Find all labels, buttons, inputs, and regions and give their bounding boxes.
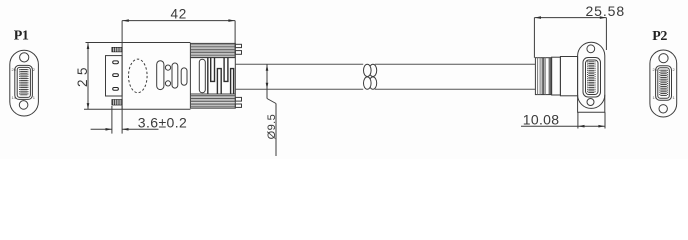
svg-text:42: 42 <box>171 6 188 21</box>
body slot A <box>157 61 164 90</box>
svg-text:14: 14 <box>653 95 658 100</box>
right flange bottom arc <box>578 95 605 109</box>
left boot comb ribs <box>208 58 234 94</box>
body left edge / 42-dim left ext <box>121 21 123 110</box>
cable break symbol <box>364 64 377 89</box>
P2 top screw hole <box>659 54 668 63</box>
svg-text:3.6±0.2: 3.6±0.2 <box>138 114 187 130</box>
left 25-dim line <box>87 43 90 110</box>
left boot top band boundary <box>190 57 235 59</box>
svg-text:25.58: 25.58 <box>586 3 626 19</box>
shell front rect <box>106 56 123 96</box>
tiny pin numbers P1 <box>12 67 36 100</box>
svg-text:P2: P2 <box>652 29 667 44</box>
3.6 dim ext lines <box>111 106 113 134</box>
P2 connector inner frame <box>658 68 670 98</box>
cable lower line <box>235 88 363 90</box>
right flange outline <box>578 42 605 112</box>
P1 pin ladder <box>20 69 28 95</box>
shell slot 2 <box>113 74 119 77</box>
3.6 dim arrows and tails <box>91 128 159 131</box>
tiny pin numbers P2 <box>653 67 676 100</box>
body bottom edge + ext line <box>84 108 190 110</box>
dashed grip ellipse <box>129 59 148 93</box>
P1 bottom screw hole <box>19 101 28 110</box>
shell slot 3 <box>113 88 119 91</box>
left boot end teeth top <box>235 44 241 47</box>
body slot C <box>181 68 187 85</box>
P1 connector inner frame <box>17 67 30 97</box>
left boot top rib band <box>190 45 235 57</box>
svg-text:P1: P1 <box>14 29 29 44</box>
body small circle top <box>165 65 170 70</box>
receptacle inner <box>586 60 599 95</box>
P1 face view stadium <box>10 50 39 116</box>
svg-text:10.08: 10.08 <box>523 111 560 127</box>
svg-text:Ø9.5: Ø9.5 <box>266 114 278 139</box>
body small circle bottom <box>165 81 170 86</box>
P1 top screw hole <box>20 53 29 62</box>
P2 pin ladder <box>660 70 668 96</box>
P1 connector outer shell <box>15 65 33 99</box>
receptacle outer <box>583 58 601 98</box>
left boot capsule <box>199 59 205 93</box>
flange bottom screw hole <box>587 99 594 106</box>
left boot end teeth bottom <box>235 97 241 101</box>
receptacle pin ladder <box>588 61 596 93</box>
left boot bottom rib band <box>190 95 235 107</box>
P2 bottom screw hole <box>659 105 667 113</box>
42-dim line <box>122 19 235 22</box>
shell slot 1 <box>113 61 119 64</box>
body top edge + ext line <box>86 42 191 44</box>
left boot bottom band boundary <box>190 93 235 95</box>
P2 connector outer shell <box>656 66 672 100</box>
flange top screw hole <box>587 45 595 53</box>
25.58 dim <box>534 16 606 58</box>
bottom knurled thumbscrew <box>112 100 122 105</box>
left boot outline <box>190 43 235 108</box>
svg-text:25: 25 <box>75 63 90 87</box>
10.08 dim <box>521 112 605 128</box>
body slot B <box>172 63 178 88</box>
right boot mid block <box>552 57 561 95</box>
right neck <box>560 57 577 96</box>
dia 9.5 dim <box>266 64 276 156</box>
right boot rib block <box>535 58 551 95</box>
top knurled thumbscrew <box>112 47 122 51</box>
P2 face view stadium <box>650 50 677 117</box>
svg-text:14: 14 <box>12 95 17 100</box>
svg-text:26: 26 <box>12 67 17 72</box>
42-dim right ext <box>234 21 236 58</box>
svg-text:26: 26 <box>653 67 658 72</box>
cable upper line <box>235 63 363 65</box>
